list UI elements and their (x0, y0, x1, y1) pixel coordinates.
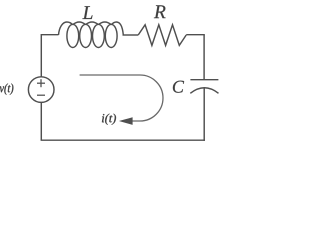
label v(t) (0, 83, 13, 94)
current loop arrowhead (119, 117, 133, 125)
wire bottom horizontal (41, 139, 205, 141)
label R (154, 5, 166, 18)
wire left vertical upper (40, 34, 42, 77)
wire right vertical lower (203, 88, 205, 141)
label C (173, 81, 184, 93)
inductor L coil: entry hump (59, 22, 73, 35)
voltage source plus sign (37, 79, 45, 87)
voltage source minus sign (37, 94, 45, 96)
wire right vertical upper (203, 35, 205, 80)
capacitor C top plate (190, 79, 218, 81)
wire top-left horizontal (41, 34, 58, 36)
current loop i(t) arrow arc (80, 75, 163, 121)
inductor loop 2 (80, 24, 92, 47)
voltage source v(t) circle (28, 77, 54, 103)
label i(t) (102, 114, 116, 125)
capacitor C bottom plate (curved) (190, 88, 218, 94)
wire top-right horizontal (186, 34, 205, 36)
inductor bridge arc 1 (73, 22, 86, 25)
inductor loop 1 (67, 24, 79, 47)
inductor exit hump (111, 22, 123, 35)
inductor loop 4 (105, 24, 117, 47)
wire between inductor and resistor (123, 34, 139, 36)
resistor R zigzag (138, 25, 186, 46)
label L (82, 6, 92, 19)
wire left vertical lower (40, 102, 42, 140)
inductor bridge arc 2 (86, 22, 99, 25)
inductor bridge arc 3 (98, 22, 111, 25)
inductor loop 3 (93, 24, 105, 47)
